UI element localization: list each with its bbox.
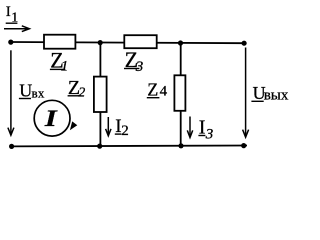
mesh current arrowhead bbox=[70, 121, 77, 130]
wire branch B lower bbox=[180, 110, 182, 146]
node A bottom junction bbox=[97, 144, 102, 149]
node bottom-right terminal bbox=[241, 143, 246, 148]
wire branch A lower bbox=[99, 111, 101, 146]
arrow I1 current direction bbox=[4, 26, 29, 32]
svg-text:2: 2 bbox=[121, 123, 129, 139]
wire branch A upper bbox=[99, 43, 101, 78]
label I2 bbox=[115, 116, 129, 139]
wire top rail bbox=[11, 42, 245, 43]
svg-text:2: 2 bbox=[78, 86, 85, 101]
arrow Uin bbox=[8, 50, 14, 135]
svg-text:Z: Z bbox=[147, 80, 158, 100]
label Uvyh output voltage bbox=[251, 83, 288, 104]
impedance Z4 bbox=[174, 75, 185, 111]
label Z2 bbox=[68, 77, 86, 101]
mesh current circle I bbox=[34, 100, 70, 136]
label Z4 bbox=[147, 80, 168, 100]
label I1 bbox=[6, 4, 19, 26]
label Z3 bbox=[124, 47, 143, 75]
arrow Uout bbox=[243, 48, 249, 138]
impedance Z2 bbox=[94, 77, 107, 112]
node A top junction bbox=[98, 40, 103, 45]
wire bottom rail bbox=[11, 145, 247, 148]
node bottom-left terminal bbox=[9, 144, 14, 149]
label Uvh input voltage bbox=[19, 80, 45, 100]
arrow I3 bbox=[187, 117, 192, 138]
svg-text:вх: вх bbox=[32, 85, 45, 100]
node B top junction bbox=[178, 40, 183, 45]
svg-text:I: I bbox=[6, 4, 11, 20]
node B bottom junction bbox=[178, 143, 183, 148]
impedance Z1 bbox=[44, 35, 75, 49]
label I3 bbox=[198, 117, 213, 143]
svg-text:вых: вых bbox=[264, 88, 289, 104]
node top-right terminal bbox=[242, 41, 247, 46]
wire branch B upper bbox=[180, 43, 182, 76]
svg-text:4: 4 bbox=[160, 84, 168, 100]
arrow I2 bbox=[106, 117, 111, 136]
svg-text:3: 3 bbox=[135, 59, 144, 75]
svg-text:U: U bbox=[19, 80, 32, 100]
svg-text:1: 1 bbox=[61, 59, 69, 75]
svg-text:3: 3 bbox=[205, 126, 214, 142]
svg-text:I: I bbox=[44, 106, 59, 132]
impedance Z3 bbox=[124, 35, 156, 48]
node top-left terminal bbox=[8, 40, 13, 45]
label Z1 bbox=[50, 48, 68, 75]
